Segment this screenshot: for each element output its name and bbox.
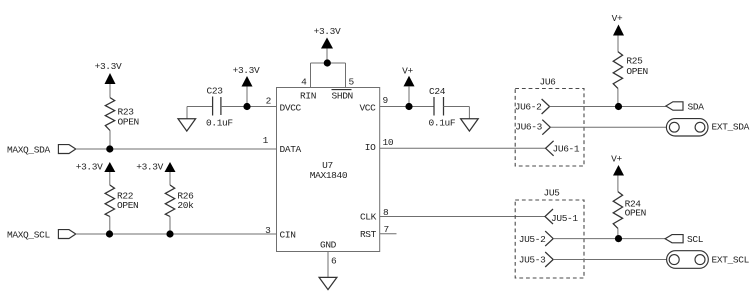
power V+ supply for R25 — [612, 13, 624, 52]
node junction R26 / SCL line — [166, 230, 173, 237]
capacitor C24 — [429, 86, 456, 129]
node junction pin4/5 supply — [324, 59, 331, 66]
svg-text:C24: C24 — [429, 86, 446, 97]
connector tag MAXQ_SDA — [7, 145, 76, 156]
svg-text:6: 6 — [331, 256, 337, 267]
svg-text:20k: 20k — [177, 200, 194, 211]
ground at pin 6 — [319, 277, 337, 289]
node junction R22 / SCL line — [106, 230, 113, 237]
wire JU5-3 to EXT_SCL — [553, 259, 666, 261]
svg-text:VCC: VCC — [359, 103, 376, 114]
svg-text:MAX1840: MAX1840 — [310, 170, 348, 181]
connector tag MAXQ_SCL — [7, 230, 76, 241]
svg-text:C23: C23 — [207, 86, 224, 97]
svg-text:IO: IO — [365, 142, 376, 153]
ground for C23 — [178, 107, 196, 132]
svg-text:SCL: SCL — [687, 234, 704, 245]
node junction R24 / SCL line — [615, 235, 622, 242]
resistor R24 — [613, 192, 646, 229]
wire R23 bottom to SDA line — [109, 131, 111, 150]
resistor R25 — [613, 52, 648, 89]
svg-text:OPEN: OPEN — [626, 66, 647, 77]
wire JU5-2 to SCL tag — [553, 238, 665, 240]
svg-text:+3.3V: +3.3V — [233, 65, 260, 76]
jumper pin JU6-2 — [515, 99, 550, 114]
wire GND pin 6 stem — [327, 252, 329, 278]
jumper pin JU5-3 — [519, 252, 553, 267]
power +3.3V supply at RIN/SHDN — [314, 26, 341, 63]
svg-text:JU6-1: JU6-1 — [553, 144, 580, 155]
svg-text:V+: V+ — [611, 154, 622, 165]
svg-text:OPEN: OPEN — [625, 207, 646, 218]
wire R25 bottom to SDA line — [617, 88, 619, 106]
jumper block JU5 dashed outline — [515, 200, 584, 278]
svg-text:0.1uF: 0.1uF — [429, 118, 456, 129]
connector EXT_SDA — [666, 119, 749, 136]
svg-text:+3.3V: +3.3V — [76, 162, 103, 173]
svg-text:V+: V+ — [402, 66, 413, 77]
wire MAXQ_SDA to pin 1 DATA — [76, 148, 277, 150]
svg-text:RST: RST — [360, 229, 377, 240]
wire CLK pin 8 to JU5-1 — [380, 216, 545, 218]
svg-text:RIN: RIN — [300, 91, 316, 102]
svg-text:JU5-2: JU5-2 — [519, 234, 546, 245]
ground for C24 — [461, 119, 479, 131]
svg-text:JU6-2: JU6-2 — [515, 102, 542, 113]
svg-text:4: 4 — [301, 77, 307, 88]
svg-text:JU5: JU5 — [543, 188, 560, 199]
svg-text:JU6-3: JU6-3 — [515, 122, 542, 133]
svg-text:+3.3V: +3.3V — [136, 162, 163, 173]
svg-text:EXT_SCL: EXT_SCL — [712, 255, 750, 266]
svg-text:JU6: JU6 — [539, 77, 556, 88]
wire R24 bottom to SCL line — [617, 228, 619, 238]
svg-text:CLK: CLK — [360, 212, 377, 223]
wire pins 4 and 5 risers — [311, 63, 346, 88]
svg-text:JU5-1: JU5-1 — [551, 213, 578, 224]
resistor R26 — [165, 185, 194, 217]
svg-text:OPEN: OPEN — [117, 200, 138, 211]
node junction MAXQ_SDA / R23 — [106, 145, 113, 152]
svg-text:MAXQ_SCL: MAXQ_SCL — [7, 230, 50, 241]
resistor R23 — [105, 98, 139, 131]
svg-text:MAXQ_SDA: MAXQ_SDA — [7, 145, 50, 156]
svg-text:OPEN: OPEN — [118, 116, 139, 127]
svg-text:DVCC: DVCC — [280, 103, 302, 114]
svg-text:DATA: DATA — [280, 144, 302, 155]
svg-text:V+: V+ — [612, 13, 623, 24]
connector EXT_SCL — [667, 251, 750, 269]
svg-text:+3.3V: +3.3V — [314, 26, 341, 37]
wire JU6-3 to EXT_SDA — [550, 126, 666, 128]
wire C24 to ground — [444, 107, 470, 119]
connector tag SCL — [665, 234, 704, 245]
power +3.3V supply for R26 — [136, 162, 175, 186]
jumper pin JU6-1 — [546, 141, 580, 156]
wire VCC pin 9 to C24 — [380, 106, 434, 108]
node junction VCC wire — [405, 103, 412, 110]
wire RST pin 7 stub — [380, 233, 397, 235]
svg-text:2: 2 — [266, 96, 272, 107]
wire R22 bottom to SCL line — [109, 217, 111, 235]
wire MAXQ_SCL to pin 3 CIN — [76, 233, 277, 235]
svg-text:EXT_SDA: EXT_SDA — [712, 122, 750, 133]
svg-text:R25: R25 — [626, 56, 643, 67]
power +3.3V supply for R23 — [95, 61, 122, 98]
wire ground to C23 — [187, 106, 213, 108]
svg-text:5: 5 — [349, 77, 355, 88]
jumper pin JU6-3 — [515, 120, 550, 135]
jumper pin JU5-2 — [519, 231, 553, 246]
wire IO pin 10 to JU6-1 — [380, 147, 546, 149]
svg-text:SDA: SDA — [688, 102, 705, 113]
power +3.3V supply at DVCC — [233, 65, 260, 107]
node junction DVCC wire — [243, 103, 250, 110]
op-amp U7 MAX1840 body — [277, 88, 380, 252]
svg-text:1: 1 — [263, 135, 269, 146]
wire R26 bottom to SCL line — [169, 217, 171, 235]
svg-text:0.1uF: 0.1uF — [206, 118, 233, 129]
svg-text:+3.3V: +3.3V — [95, 61, 122, 72]
power +3.3V supply for R22 — [76, 162, 116, 186]
svg-text:10: 10 — [383, 137, 394, 148]
svg-text:SHDN: SHDN — [332, 91, 353, 102]
jumper pin JU5-1 — [545, 209, 578, 224]
svg-text:GND: GND — [320, 240, 337, 251]
wire C23 to pin 2 DVCC — [221, 106, 277, 108]
node junction R25 / SDA line — [615, 103, 622, 110]
capacitor C23 — [206, 86, 233, 129]
svg-text:JU5-3: JU5-3 — [519, 255, 546, 266]
svg-text:CIN: CIN — [280, 230, 296, 241]
jumper block JU6 dashed outline — [515, 89, 584, 167]
resistor R22 — [105, 185, 138, 217]
svg-text:9: 9 — [383, 95, 389, 106]
connector tag SDA — [666, 102, 704, 113]
power V+ supply for R24 — [611, 154, 624, 192]
wire JU6-2 to SDA tag — [550, 106, 666, 108]
power V+ supply at VCC — [402, 66, 414, 107]
